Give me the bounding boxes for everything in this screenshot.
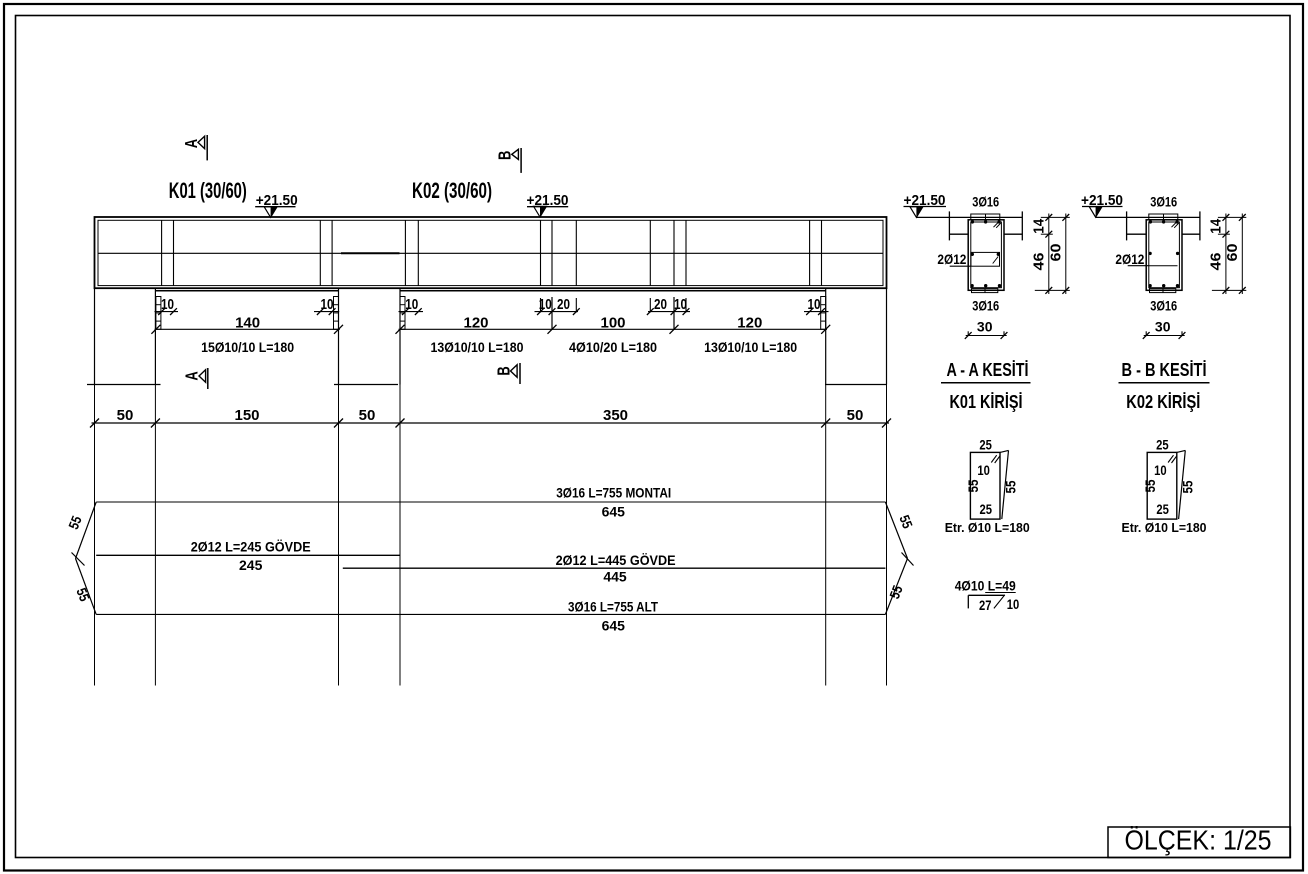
section top bar dots — [971, 220, 1001, 223]
title K02 KIRISI — [1126, 392, 1200, 412]
section dim text 60 — [1224, 244, 1241, 262]
svg-text:15Ø10/10 L=180: 15Ø10/10 L=180 — [201, 339, 294, 355]
section govde line — [1149, 265, 1178, 267]
section height dim lines — [1212, 214, 1246, 295]
svg-text:A - A KESİTİ: A - A KESİTİ — [947, 360, 1029, 380]
K02 rebar text 13Ø10/10 L=180 right — [704, 339, 797, 355]
svg-text:K02 (30/60): K02 (30/60) — [412, 178, 492, 203]
dim text 350 — [603, 407, 628, 424]
section level line — [916, 216, 1022, 218]
svg-text:46: 46 — [1031, 253, 1048, 271]
svg-text:120: 120 — [463, 315, 488, 332]
svg-text:2Ø12 L=245 GÖVDE: 2Ø12 L=245 GÖVDE — [191, 539, 311, 555]
svg-text:50: 50 — [847, 407, 864, 424]
section slab end ticks — [1127, 211, 1200, 240]
svg-text:46: 46 — [1208, 253, 1225, 271]
K01 right stirrup ladder symbol — [334, 297, 339, 330]
section label 3Ø16 bottom — [1150, 298, 1177, 314]
stirrup detail rectangle — [1147, 452, 1177, 519]
K02 right stirrup ladder symbol — [821, 297, 826, 330]
section dim text 46 — [1208, 253, 1225, 271]
section dimension 30 — [965, 319, 1008, 339]
right lower 55 label — [886, 583, 906, 601]
right upper 55 label — [896, 513, 916, 531]
beam elevation lap-splice thick segment — [341, 252, 400, 254]
section stirrup — [971, 222, 1002, 288]
section label 3Ø16 top — [972, 194, 999, 210]
K02 dimension 120/100/120 — [396, 315, 831, 334]
scale text OLCEK 1/25 — [1125, 825, 1272, 856]
dim text 50 a — [117, 407, 134, 424]
section label 3Ø16 bottom — [972, 298, 999, 314]
K02 right 10 mini-dimension — [804, 296, 829, 315]
K01 left 10 mini-dimension — [155, 296, 179, 315]
svg-text:140: 140 — [235, 315, 260, 332]
left splice X mark — [72, 553, 85, 566]
svg-text:3Ø16: 3Ø16 — [972, 298, 999, 314]
svg-text:2Ø12: 2Ø12 — [1115, 251, 1144, 267]
stirrup text 55 right — [1180, 480, 1196, 493]
section label 2Ø12 — [1115, 251, 1149, 267]
section hook slashes — [994, 222, 1001, 227]
svg-text:25: 25 — [980, 501, 993, 517]
svg-text:55: 55 — [1003, 480, 1019, 493]
svg-text:13Ø10/10 L=180: 13Ø10/10 L=180 — [704, 339, 797, 355]
right splice X mark — [902, 553, 914, 566]
section mark B top — [496, 148, 521, 173]
section slab bottom lines — [1127, 233, 1200, 235]
K02 left 10 mini-dimension — [399, 296, 424, 315]
pin bar text 10 — [1007, 596, 1020, 612]
stirrup hook slashes — [1168, 455, 1177, 463]
column face verticals — [95, 288, 887, 384]
stirrup text 25 top — [1156, 437, 1169, 453]
section mark A top — [182, 135, 207, 160]
beam elevation inner outline — [98, 220, 883, 285]
K01 rebar text 15Ø10/10 L=180 — [201, 339, 294, 355]
stirrup hook flap — [1000, 450, 1009, 519]
svg-text:ÖLÇEK: 1/25: ÖLÇEK: 1/25 — [1125, 825, 1272, 856]
level +21.50 at section A — [904, 192, 947, 217]
left lower 55 label — [73, 586, 93, 604]
level +21.50 at K02 — [527, 192, 569, 217]
stirrup text 10 — [977, 462, 990, 478]
label K02 (30/60) — [412, 178, 492, 203]
beam elevation middle bar line — [98, 252, 883, 254]
title K01 KIRISI — [950, 392, 1023, 412]
svg-text:3Ø16 L=755 ALT: 3Ø16 L=755 ALT — [568, 599, 658, 615]
K02 stirrup zone top line — [400, 290, 826, 292]
svg-text:3Ø16: 3Ø16 — [1150, 298, 1177, 314]
svg-text:55: 55 — [1180, 480, 1196, 493]
section dim text 46 — [1031, 253, 1048, 271]
svg-text:K01 KİRİŞİ: K01 KİRİŞİ — [950, 392, 1023, 412]
section govde dots — [1148, 252, 1179, 255]
svg-text:60: 60 — [1224, 244, 1241, 262]
svg-text:10: 10 — [808, 296, 821, 313]
stirrup detail rectangle — [970, 452, 1000, 519]
section slab bottom lines — [949, 233, 1022, 235]
section stirrup — [1149, 222, 1180, 288]
column cut lines — [87, 384, 887, 386]
main dimension line — [90, 419, 891, 428]
K02 left stirrup ladder symbol — [400, 297, 405, 330]
section dim text 14 — [1208, 218, 1225, 234]
K01 stirrup zone top line — [156, 290, 339, 292]
stirrup text Etr — [945, 520, 1030, 535]
svg-text:645: 645 — [602, 618, 626, 634]
stirrup text 25 bottom — [980, 501, 993, 517]
svg-text:30: 30 — [1155, 319, 1171, 335]
stirrup hook slashes — [991, 455, 1000, 463]
govde bar 2 line — [343, 567, 886, 569]
rebar text 645 bottom — [602, 618, 626, 634]
section bottom bar dots — [1148, 284, 1179, 287]
K01 dimension 140 — [151, 315, 343, 334]
svg-text:350: 350 — [603, 407, 628, 424]
svg-text:K01 (30/60): K01 (30/60) — [169, 178, 247, 203]
svg-text:2Ø12: 2Ø12 — [937, 251, 966, 267]
rebar left hook diagonals — [76, 502, 97, 614]
beam elevation outer outline — [95, 217, 887, 288]
svg-text:60: 60 — [1048, 244, 1065, 262]
svg-text:10: 10 — [1007, 596, 1020, 612]
dim text 50 b — [359, 407, 376, 424]
rebar text 3Ø16 L=755 MONTAJ — [556, 485, 671, 501]
stirrup hook flap — [1177, 450, 1186, 519]
section height dim lines — [1035, 214, 1070, 295]
K02 mid-left 10/20 mini-dimension — [535, 296, 580, 330]
stirrup text 55 left — [965, 479, 981, 492]
label K01 (30/60) — [169, 178, 247, 203]
rebar text 3Ø16 L=755 ALT — [568, 599, 658, 615]
stirrup text 55 right — [1003, 480, 1019, 493]
section slab end ticks — [949, 211, 1022, 240]
svg-text:14: 14 — [1208, 218, 1225, 234]
section top bar dots — [1149, 220, 1179, 223]
stirrup text Etr — [1122, 520, 1207, 535]
section bottom bar strip — [1150, 289, 1176, 293]
svg-text:30: 30 — [977, 319, 993, 335]
svg-text:3Ø16: 3Ø16 — [972, 194, 999, 210]
section level line — [1096, 216, 1200, 218]
section govde dots — [971, 253, 1000, 256]
K01 right 10 mini-dimension — [314, 296, 339, 315]
section mark B bottom — [494, 363, 520, 384]
dim text 150 — [234, 407, 259, 424]
svg-text:55: 55 — [1142, 479, 1158, 492]
section dim text 60 — [1048, 244, 1065, 262]
svg-text:Etr. Ø10 L=180: Etr. Ø10 L=180 — [945, 520, 1030, 535]
svg-text:4Ø10 L=49: 4Ø10 L=49 — [955, 578, 1016, 594]
section govde band — [971, 252, 1000, 266]
level +21.50 at K01 — [255, 192, 298, 217]
svg-text:20: 20 — [557, 296, 570, 313]
svg-text:25: 25 — [1156, 437, 1169, 453]
K02 rebar text 13Ø10/10 L=180 left — [431, 339, 524, 355]
title B-B KESITI — [1119, 360, 1210, 383]
section bottom bar strip — [972, 289, 998, 293]
rebar right hook diagonals — [885, 502, 907, 614]
stirrup text 25 bottom — [1156, 501, 1169, 517]
svg-text:55: 55 — [965, 479, 981, 492]
level +21.50 at section B — [1081, 192, 1123, 217]
section top bar strip — [1149, 214, 1178, 220]
stirrup text 25 top — [979, 437, 992, 453]
svg-text:20: 20 — [654, 296, 667, 313]
svg-text:4Ø10/20 L=180: 4Ø10/20 L=180 — [569, 339, 657, 355]
section dim text 14 — [1031, 218, 1048, 234]
section hook slashes — [1172, 222, 1179, 227]
svg-text:645: 645 — [602, 504, 626, 520]
svg-text:100: 100 — [600, 315, 625, 332]
svg-text:445: 445 — [603, 569, 627, 585]
dim text 50 c — [847, 407, 864, 424]
govde bar 1 line — [96, 554, 400, 556]
title A-A KESITI — [941, 360, 1031, 383]
rebar text 445 — [603, 569, 627, 585]
section label 2Ø12 — [937, 251, 971, 267]
section label 3Ø16 top — [1150, 194, 1177, 210]
pin bar text 27 — [979, 597, 992, 613]
rebar top chord (montaj) — [96, 501, 885, 503]
svg-text:150: 150 — [234, 407, 259, 424]
svg-text:245: 245 — [239, 557, 263, 573]
dimension extension verticals — [95, 385, 887, 686]
svg-text:27: 27 — [979, 597, 992, 613]
section concrete outline — [1146, 220, 1182, 290]
rebar text 2Ø12 L=245 GOVDE — [191, 539, 311, 555]
svg-text:14: 14 — [1031, 218, 1048, 234]
svg-text:B - B KESİTİ: B - B KESİTİ — [1122, 360, 1207, 380]
rebar text 245 — [239, 557, 263, 573]
rebar bottom chord (alt) — [96, 613, 885, 615]
svg-text:13Ø10/10 L=180: 13Ø10/10 L=180 — [431, 339, 524, 355]
section govde arrow — [993, 257, 999, 264]
svg-text:3Ø16: 3Ø16 — [1150, 194, 1177, 210]
svg-text:K02 KİRİŞİ: K02 KİRİŞİ — [1126, 392, 1200, 412]
svg-text:120: 120 — [737, 315, 762, 332]
svg-text:25: 25 — [979, 437, 992, 453]
K01 left stirrup ladder symbol — [156, 297, 161, 330]
svg-text:25: 25 — [1156, 501, 1169, 517]
rebar text 2Ø12 L=445 GOVDE — [556, 552, 676, 568]
left upper 55 label — [65, 513, 85, 531]
section top bar strip — [971, 214, 1000, 220]
pin bar shape — [968, 595, 1005, 609]
svg-text:Etr. Ø10 L=180: Etr. Ø10 L=180 — [1122, 520, 1207, 535]
K02 mid-right 20/10 mini-dimension — [647, 296, 690, 330]
svg-text:10: 10 — [1154, 462, 1167, 478]
K02 rebar text 4Ø10/20 L=180 — [569, 339, 657, 355]
section mark A bottom — [183, 368, 208, 389]
section bottom bar dots — [970, 284, 1001, 287]
rebar text 645 top — [602, 504, 626, 520]
svg-text:2Ø12 L=445 GÖVDE: 2Ø12 L=445 GÖVDE — [556, 552, 676, 568]
stirrup text 10 — [1154, 462, 1167, 478]
svg-text:50: 50 — [359, 407, 376, 424]
stirrup text 55 left — [1142, 479, 1158, 492]
scale box — [1108, 827, 1290, 858]
section dimension 30 — [1143, 319, 1186, 339]
svg-text:10: 10 — [977, 462, 990, 478]
beam elevation stirrup/column verticals — [162, 220, 822, 285]
pin bar text 4Ø10 L=49 — [955, 578, 1016, 594]
section concrete outline — [968, 220, 1004, 290]
svg-text:50: 50 — [117, 407, 134, 424]
svg-text:3Ø16 L=755 MONTAI: 3Ø16 L=755 MONTAI — [556, 485, 671, 501]
